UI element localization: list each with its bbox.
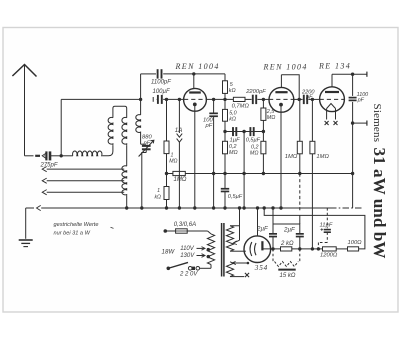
svg-text:0,3/0,6A: 0,3/0,6A [174,222,196,228]
svg-text:110V: 110V [180,246,195,252]
wire 1M load to bias rail [299,154,301,174]
tube U1 cathode [193,103,197,107]
transformer T1 secondary HV winding [226,226,233,252]
svg-text:275pF: 275pF [40,162,58,168]
svg-text:2 kΩ: 2 kΩ [280,241,294,247]
wire HT row [292,248,323,250]
svg-text:pF: pF [357,98,365,104]
wire dashed 15k left lead [272,249,274,262]
svg-text:11µF: 11µF [320,222,333,228]
svg-text:2µF: 2µF [283,227,296,234]
resistor 1M&#937; horizontal [167,173,173,175]
capacitor 0.5&#181;F bypass [224,174,226,189]
wire tube1 grid top wire [141,73,156,75]
inductor tuned winding left [108,117,113,145]
wire middle winding down to band coil [126,145,128,166]
svg-text:1MΩ: 1MΩ [174,177,187,183]
resistor 5.0k&#937; [223,109,228,121]
capacitor 100pF [209,112,218,114]
tube U2 cathode [279,103,283,107]
tube U2 grid dash line [269,98,294,100]
wire bypass cap to ground rail [224,192,226,208]
wire band coil to ground rail [126,196,128,208]
wire grid winding to tuning cap [140,134,142,145]
transformer T1 core [221,223,223,277]
fuse terminal [164,229,168,233]
svg-text:354: 354 [254,264,268,272]
wire coupling cap to tube2 [257,98,269,100]
filament tap arrow [232,261,236,264]
wire 2.5M to 0.2M [262,120,264,141]
wire secondary top to ground rail [230,208,240,226]
wire 1M to cathode node [166,154,168,187]
wire anode top feed corner [224,74,226,81]
tube V4 354 envelope [244,236,271,263]
terminal tick top [366,72,368,77]
resistor 0.2M&#937; right [261,141,266,154]
capacitor 11&#181;F [324,229,331,231]
tube U3 grid dash line [320,98,345,100]
svg-text:130V: 130V [180,253,195,259]
wire U1 cathode down to ground rail [194,104,196,208]
wire anode output top [332,73,367,75]
svg-text:MΩ: MΩ [250,150,259,156]
svg-text:100µF: 100µF [153,89,170,95]
capacitor 2&#181;F first [269,233,277,235]
resistor 1M&#937; tube2 load [299,99,301,141]
wire 2uF second to HT [299,237,301,249]
inductor tuned winding middle [122,117,127,145]
resistor 1M&#937; tube3 grid leak [311,99,313,141]
tube U3 filament [327,104,336,109]
svg-text:pF: pF [143,141,151,147]
wire 2uF first top to ground rail [272,208,274,224]
band switch tap 2 [42,178,47,183]
svg-text:0,5µF: 0,5µF [246,138,261,144]
node grid winding junction [139,98,142,101]
node 1M column junction [165,98,168,101]
svg-text:1MΩ: 1MΩ [285,154,298,160]
capacitor 1100pF [157,69,159,78]
wire 0.2M right to bias rail [262,154,264,174]
tube U2 anode plate [275,91,287,93]
wire output column upper [352,74,354,96]
wire tuning cap to ground rail [145,149,147,152]
capacitor 275pF [45,151,47,160]
tube U3 anode plate [325,91,339,93]
wire dashed 15k right lead [299,249,301,262]
node tube1 grid cap [192,72,195,75]
filament pin marks x x [325,121,329,125]
wire secondary to rectifier filament [230,250,246,252]
tube U3 RE134 envelope [320,87,345,112]
tube U2 REN1004 envelope [269,87,294,112]
svg-text:18W: 18W [162,249,176,256]
node band coil ground junction [125,206,128,209]
wire fuse to primary [187,230,207,232]
svg-text:MΩ: MΩ [267,115,276,121]
wire chassis ground rail [26,207,34,209]
svg-text:REN 1004: REN 1004 [175,62,220,71]
svg-text:1: 1 [157,188,160,194]
resistor 5k&#937; [223,81,228,94]
antenna symbol [12,65,36,77]
wire 100pF to bias rail and ground [213,117,215,209]
wire output column lower [352,102,354,208]
wire filter cap bus [273,224,300,234]
node 100pF junction [212,98,215,101]
wire 2uF first to HT [272,237,274,249]
wire switch to primary [200,267,211,269]
wire 100pF upper lead [213,99,215,113]
terminal tick bottom [366,121,368,126]
resistor 1M&#937; grid bias [164,141,169,154]
wire U2 cathode to ground rail [280,105,282,208]
transformer T1 primary winding [207,234,214,265]
resistor 100&#937; [348,247,359,251]
resistor 2.5M&#937; grid leak tube2 [262,99,264,108]
wire lamp column to ground rail [178,142,180,208]
wire output lower terminal [353,122,367,124]
node grid leak tube3 junction [311,98,314,101]
wire tube2 to coupling cap2 [294,98,303,100]
ground symbol [25,208,27,239]
svg-text:2µF: 2µF [256,226,269,233]
svg-text:2200pF: 2200pF [245,89,266,95]
wire 0.2M left to bias rail [224,154,226,174]
resistor 0.2M&#937; left [224,132,226,142]
wire coil to tuned winding [103,145,113,156]
variable capacitor 880pF [142,145,151,147]
node tube2 anode junction [298,98,301,101]
svg-text:kΩ: kΩ [229,116,236,122]
svg-text:15 kΩ: 15 kΩ [280,273,296,279]
wire U3 anode to top [331,74,333,87]
band switch tap 1 [42,167,47,172]
resistor 2k&#937; [281,247,292,251]
resistor 1k&#937; cathode bias [164,187,169,200]
wire to 100 ohm [336,248,347,250]
wire center tap to ground rail [243,132,245,209]
wire junction up to main grid line [60,99,62,155]
svg-text:0,5µF: 0,5µF [228,194,243,200]
inductor antenna series coil [61,155,73,157]
svg-text:nur bei 31 a W: nur bei 31 a W [54,231,91,237]
svg-text:1µF: 1µF [230,138,241,144]
svg-text:kΩ: kΩ [154,194,161,200]
svg-text:REN 1004: REN 1004 [263,63,308,72]
wire 5k to main line [224,93,226,109]
ground rail connector break [37,205,41,210]
svg-text:gestrichelte Werte: gestrichelte Werte [54,222,99,228]
wire coupling cap2 to tube3 [308,98,319,100]
mains switch [167,267,171,271]
svg-text:100Ω: 100Ω [348,240,363,246]
svg-text:1MΩ: 1MΩ [316,154,329,160]
svg-text:pF: pF [205,123,213,129]
svg-text:2 2 0V: 2 2 0V [179,271,198,277]
wire lamp column upper [178,99,180,133]
wire coupling rail [225,131,263,133]
wire dashed bias option [299,174,301,212]
band switch tap 3 [42,190,47,195]
svg-text:1A: 1A [175,127,183,134]
wire grid winding to main line [140,99,142,115]
tube V4 filament arcs [250,242,252,256]
capacitor 1&#181;F [232,127,234,136]
wire bias rail across [185,173,352,175]
wire chassis rail dash-dot tail [330,207,362,209]
capacitor 100&#181;F [155,98,157,100]
wire top bridge link of windings [113,106,127,117]
inductor grid winding right [136,115,141,134]
resistor 1200&#937; [323,247,337,251]
capacitor 1100pF output [349,97,357,99]
node 2.5M junction [262,98,265,101]
transformer T1 filament winding [226,262,233,277]
wire main grid line left section [61,98,140,100]
wire dashed 11uF lower [326,232,328,242]
svg-text:MΩ: MΩ [229,150,238,156]
wire dashed 11uF upper [326,208,328,228]
tube V4 anode bar [261,241,263,250]
tube U1 grid dash line [184,98,206,100]
resistor 0.7M&#937; [233,97,245,101]
resistor 15k&#937; dashed [275,262,299,267]
svg-text:880: 880 [142,135,152,141]
wire return loop right [264,208,365,249]
wire U1 grid cap lead [193,74,195,89]
svg-text:RE 134: RE 134 [318,62,351,71]
svg-text:31 aW und bW: 31 aW und bW [370,148,389,259]
wire 5.0k to coupling rail [224,121,226,131]
capacitor 0.5&#181;F coupling [249,127,251,136]
filament pin mark x [245,273,249,277]
svg-text:1200Ω: 1200Ω [320,252,338,258]
node tuning cap ground junction [140,206,143,209]
heater tap arrow [239,226,241,241]
wire main line to tube1 [163,98,184,100]
svg-text:kΩ: kΩ [229,88,236,94]
capacitor 2200pF second [303,95,305,104]
tube U1 anode plate [189,91,201,93]
wire U2 anode top bracket [280,75,282,88]
capacitor 2200pF first [252,95,254,104]
svg-text:1100pF: 1100pF [151,79,171,85]
wire antenna to coupling cap [25,155,34,157]
fuse 0.3/0.6A [167,230,176,232]
wire 275pF to junction [51,155,62,157]
tube U1 REN1004 envelope [184,88,207,111]
wire antenna lead-in vertical [24,65,26,156]
node screen junction [223,98,226,101]
wire 1k to ground rail [166,200,168,209]
wire grid line up to top wire [140,74,142,100]
node antenna junction [60,154,63,157]
wire grid leak down to back bias [311,154,313,249]
wire main line tube1 to load [206,98,233,100]
node 100uF left lead tick [152,97,154,102]
node bias junction [165,172,168,175]
wire rectifier top feed [257,208,259,236]
capacitor 2&#181;F second [296,233,304,235]
svg-text:Siemens: Siemens [371,104,383,143]
antenna connector break [35,155,40,157]
wire load to coupling cap [245,98,252,100]
wire filament winding bottom [230,276,244,278]
node lamp column junction [178,98,181,101]
inductor band-switch coil [122,166,127,196]
wire rectifier anode output [262,248,280,250]
wire 1M column upper [166,99,168,141]
svg-text:MΩ: MΩ [169,159,177,165]
svg-text:0,7MΩ: 0,7MΩ [232,103,250,109]
